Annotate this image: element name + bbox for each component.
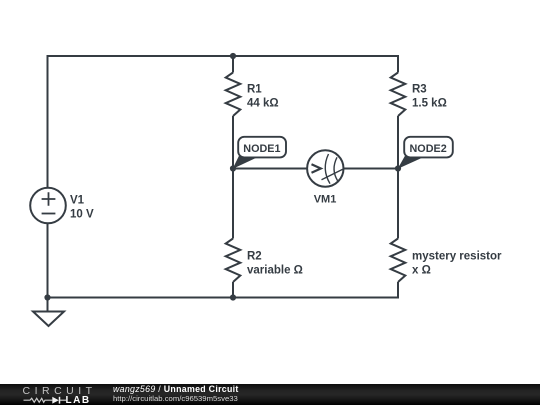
node NODE1 junction dot <box>230 165 236 171</box>
voltmeter VM1 <box>307 150 344 186</box>
wire left from top rail to V1 <box>47 56 49 188</box>
svg-text:10 V: 10 V <box>70 209 94 221</box>
wire node1 to voltmeter <box>233 168 307 170</box>
node ground junction dot <box>44 294 50 300</box>
resistor R2 <box>226 239 241 283</box>
node NODE2 junction dot <box>395 165 401 171</box>
footer bar <box>0 384 540 405</box>
svg-text:1.5 kΩ: 1.5 kΩ <box>412 97 447 109</box>
wire mid column upper (top rail to R1) <box>232 56 234 73</box>
svg-text:R1: R1 <box>247 84 262 96</box>
node NODE2 flag <box>398 137 453 169</box>
svg-text:NODE1: NODE1 <box>243 143 280 155</box>
wire R2 to bottom rail <box>232 282 234 298</box>
svg-text:44 kΩ: 44 kΩ <box>247 97 279 109</box>
svg-text:R3: R3 <box>412 84 427 96</box>
credit line author/title <box>113 384 239 394</box>
wire bottom rail <box>48 296 399 299</box>
wire mystery resistor to bottom rail <box>397 282 399 298</box>
logo resistor-diode glyph <box>20 394 68 406</box>
credit line url <box>113 394 238 403</box>
voltage source V1 <box>30 188 66 224</box>
svg-text:x Ω: x Ω <box>412 265 431 277</box>
svg-text:V1: V1 <box>70 195 85 207</box>
svg-text:variable Ω: variable Ω <box>247 265 303 277</box>
resistor R1 <box>226 73 241 117</box>
wire voltmeter to node2 <box>344 168 399 170</box>
wire R3 to node2 junction to mystery resistor <box>397 116 399 239</box>
node NODE1 flag <box>233 137 286 169</box>
wire V1 to ground junction <box>47 223 49 311</box>
svg-text:R2: R2 <box>247 251 262 263</box>
logo CircuitLab wordmark <box>23 385 97 397</box>
svg-text:mystery resistor: mystery resistor <box>412 251 502 263</box>
wire right column upper (top rail to R3) <box>397 56 399 73</box>
node bottom junction dot below R2 <box>230 294 236 300</box>
svg-text:NODE2: NODE2 <box>410 143 447 155</box>
resistor R3 <box>391 73 406 117</box>
wire top rail <box>48 56 399 57</box>
wire R1 to node1 junction to R2 <box>232 116 234 239</box>
node A junction dot top of R1 <box>230 53 236 59</box>
svg-text:VM1: VM1 <box>314 193 337 205</box>
resistor mystery x ohm <box>391 239 406 283</box>
ground <box>33 312 64 327</box>
